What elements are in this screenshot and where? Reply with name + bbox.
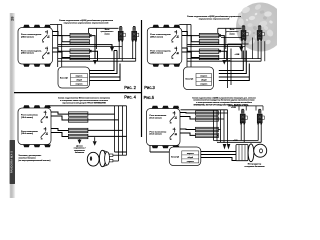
svg-text:30: 30	[170, 139, 172, 141]
svg-text:открыть: открыть	[187, 161, 194, 163]
svg-text:87a: 87a	[175, 48, 178, 50]
svg-text:30: 30	[172, 42, 174, 44]
svg-text:Рис.3: Рис.3	[144, 85, 155, 90]
svg-text:общий: общий	[201, 79, 207, 82]
svg-text:(2М-й канал): (2М-й канал)	[150, 52, 163, 55]
svg-text:87a: 87a	[44, 128, 47, 130]
svg-text:общий: общий	[76, 79, 82, 82]
svg-text:Блок ЦЗ: Блок ЦЗ	[186, 78, 195, 80]
svg-text:Блок ЦЗ: Блок ЦЗ	[171, 156, 180, 158]
svg-text:30: 30	[42, 42, 44, 44]
svg-text:Рис.5: Рис.5	[144, 95, 155, 100]
svg-text:открыть: открыть	[200, 84, 207, 86]
svg-text:переключателей дверей «РХ-5»: переключателей дверей «РХ-5» ВНИМАНИЕ	[62, 102, 106, 105]
svg-text:закрыть: закрыть	[200, 76, 207, 78]
svg-text:отпирания багажника: отпирания багажника	[244, 166, 265, 168]
svg-text:87a: 87a	[44, 112, 47, 114]
svg-text:(2М-й канал): (2М-й канал)	[21, 35, 34, 38]
svg-text:закрыть: закрыть	[76, 76, 83, 78]
svg-text:87a: 87a	[45, 48, 48, 50]
svg-text:Блок ЦЗ: Блок ЦЗ	[60, 78, 69, 80]
svg-text:виртуальных управляемых перекл: виртуальных управляемых переключателей	[64, 22, 110, 25]
svg-text:87a: 87a	[45, 31, 48, 33]
svg-text:(не запрограммированный контак: (не запрограммированный контакт)	[19, 159, 51, 162]
svg-text:+12В: +12В	[233, 140, 238, 142]
svg-text:30: 30	[172, 58, 174, 60]
svg-text:87a: 87a	[173, 129, 176, 131]
svg-text:PANDORA MX-5: PANDORA MX-5	[9, 150, 13, 173]
svg-text:+12В: +12В	[235, 54, 240, 56]
svg-text:Рис. 2: Рис. 2	[124, 85, 136, 90]
svg-text:30: 30	[170, 123, 172, 125]
svg-text:30: 30	[41, 139, 43, 141]
svg-text:открыть: открыть	[76, 84, 83, 86]
svg-text:(2М-й канал): (2М-й канал)	[150, 35, 163, 38]
svg-text:(16-й канал): (16-й канал)	[150, 116, 162, 119]
svg-text:30: 30	[41, 122, 43, 124]
svg-text:виртуальных переключателей: виртуальных переключателей	[199, 17, 230, 20]
svg-text:87a: 87a	[173, 112, 176, 114]
svg-text:(16-й канал): (16-й канал)	[150, 133, 162, 136]
svg-text:общий: общий	[188, 156, 194, 159]
svg-text:87a: 87a	[175, 31, 178, 33]
svg-text:30: 30	[42, 58, 44, 60]
svg-text:+12В: +12В	[231, 107, 236, 109]
svg-text:+12В: +12В	[226, 61, 231, 63]
svg-text:(2М-й канал): (2М-й канал)	[21, 52, 34, 55]
svg-text:(16-й канал): (16-й канал)	[21, 116, 33, 119]
svg-text:закрыть: закрыть	[187, 153, 194, 155]
svg-text:Рис. 4: Рис. 4	[124, 95, 136, 100]
svg-text:(16-й канал): (16-й канал)	[21, 132, 33, 135]
svg-text:26: 26	[11, 16, 15, 20]
svg-text:багажника: багажника	[75, 151, 85, 154]
